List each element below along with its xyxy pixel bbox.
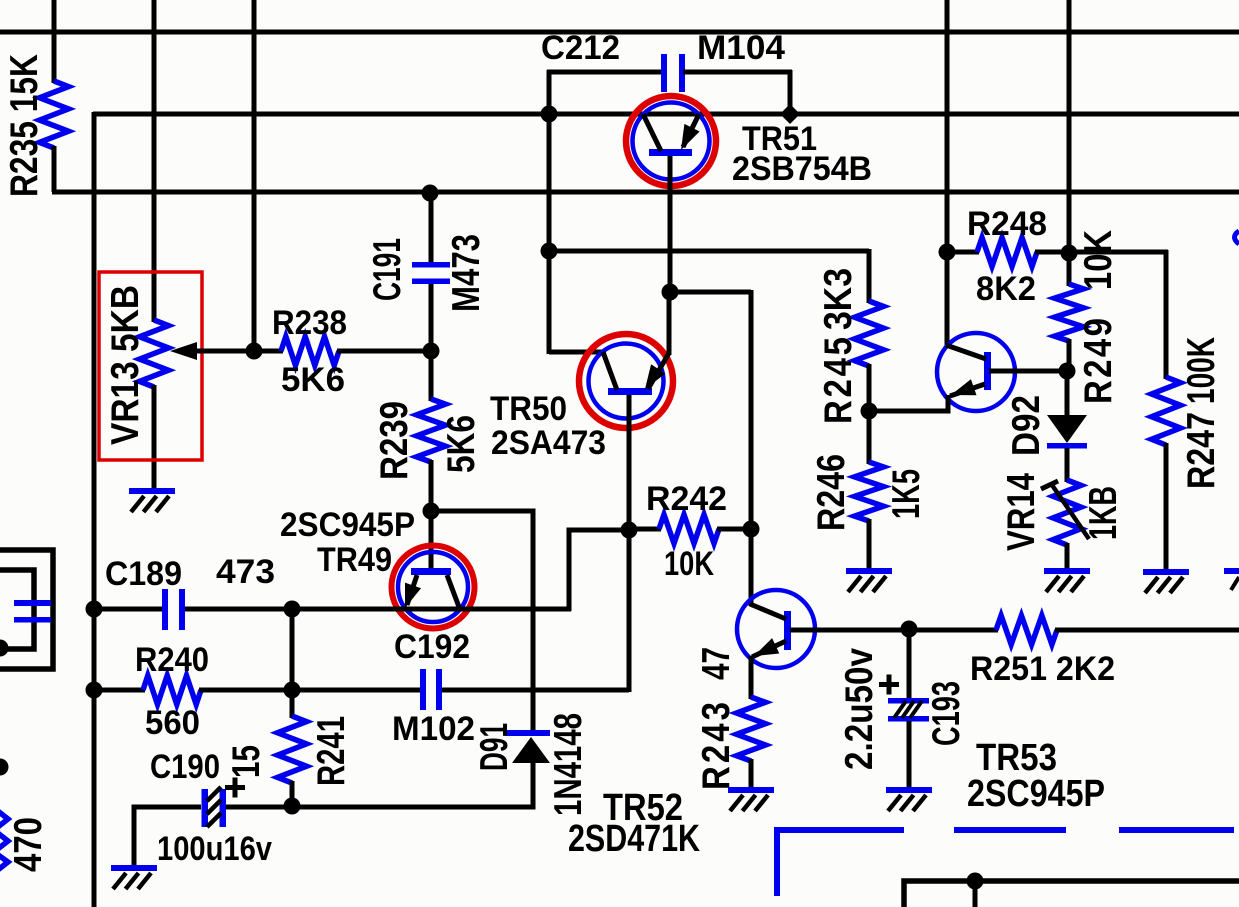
wire D91 bottom lead: [292, 761, 533, 807]
label R247: [1178, 412, 1222, 489]
label 1KB: [1080, 486, 1124, 540]
svg-text:M104: M104: [697, 29, 785, 67]
ground C190: [111, 865, 157, 889]
wire R235 top lead: [52, 0, 57, 83]
node C212 right junction: [780, 104, 800, 124]
transistor TR50 base bar: [608, 388, 652, 395]
label R240: [135, 641, 209, 679]
transistor TR49 red ring: [392, 546, 475, 629]
wire TR52 base lead: [790, 628, 911, 633]
node C212 left junction: [541, 106, 558, 123]
wire vertical x947: [945, 0, 950, 347]
svg-text:C193: C193: [923, 681, 967, 746]
label C190: [150, 748, 220, 786]
svg-text:R247: R247: [1178, 412, 1222, 489]
wire TR51 emitter diagonal: [683, 114, 699, 147]
wire x292 link: [290, 609, 295, 690]
wire C192 right lead: [442, 688, 629, 693]
wire C192 left lead: [292, 688, 422, 693]
label R251 2K2: [970, 650, 1115, 688]
arrow TR51 emitter: [681, 124, 700, 150]
label 473 C189: [216, 553, 275, 591]
capacitor C193: [888, 698, 929, 722]
label 1K5: [883, 469, 927, 519]
label R241: [308, 716, 352, 786]
wire VR13 wiper: [194, 349, 254, 354]
svg-text:D91: D91: [471, 723, 515, 771]
wire TR51 collector diagonal: [643, 114, 661, 151]
svg-text:C212: C212: [541, 29, 620, 67]
node R240 left junction: [86, 682, 103, 699]
svg-text:R240: R240: [135, 641, 209, 679]
wire R242 right lead: [717, 527, 751, 532]
svg-text:473: 473: [216, 553, 275, 591]
label R246: [808, 454, 852, 531]
ground C193: [886, 787, 932, 811]
svg-text:R239: R239: [371, 401, 415, 480]
wire C190 right lead: [224, 805, 292, 810]
wire TR50 emitter riser: [667, 292, 672, 355]
node R248 left junction: [939, 244, 956, 261]
diode D92: [1047, 415, 1087, 449]
wire TR52 collector diagonal: [750, 604, 786, 619]
wire R240 right lead: [199, 688, 294, 693]
svg-text:470: 470: [5, 817, 49, 872]
svg-text:R249: R249: [1075, 318, 1119, 404]
label 2.2u50v: [836, 648, 880, 770]
plus sign C193: [879, 675, 899, 695]
wire y609 jog up: [569, 530, 631, 611]
svg-text:R251 2K2: R251 2K2: [970, 650, 1115, 688]
wire R251 left lead: [909, 628, 998, 633]
svg-text:2SB754B: 2SB754B: [732, 150, 872, 188]
resistor R249: [1055, 284, 1084, 341]
label R243: [693, 702, 737, 790]
svg-text:2SD471K: 2SD471K: [568, 818, 700, 860]
wire bias base lead: [989, 369, 1067, 374]
resistor R240: [143, 676, 201, 705]
svg-text:1K5: 1K5: [883, 469, 927, 519]
wire C191 top lead: [429, 192, 434, 264]
node TR50 base junction: [621, 522, 638, 539]
wire bias emitter corner: [869, 395, 948, 411]
node C193 top junction: [901, 621, 918, 638]
arrow bias emitter: [951, 379, 977, 395]
transistor TR51 base bar: [649, 149, 692, 156]
svg-text:R245: R245: [815, 337, 859, 424]
diode D91: [506, 730, 550, 763]
arrow TR52 emitter: [754, 638, 779, 656]
label VR13 5KB: [102, 285, 146, 445]
wire TR49 base lead: [429, 511, 434, 570]
wire TR52 collector lead: [749, 529, 754, 606]
resistor R239: [417, 399, 446, 462]
resistor R247: [1152, 377, 1181, 445]
resistor R242: [659, 515, 719, 544]
resistor partial 470: [0, 808, 8, 873]
node x549 y251 junction: [541, 243, 558, 260]
label 2SC945P TR49: [280, 506, 415, 544]
label R248: [967, 205, 1047, 243]
wire C212 riser left: [547, 70, 552, 116]
svg-text:TR49: TR49: [317, 541, 392, 579]
label R239: [371, 401, 415, 480]
wire y292 link: [670, 290, 751, 295]
wire R245 bottom lead: [867, 364, 872, 411]
svg-text:10K: 10K: [1075, 230, 1119, 290]
label C193: [923, 681, 967, 746]
label TR50: [490, 390, 567, 428]
svg-text:1KB: 1KB: [1080, 486, 1124, 540]
capacitor C190: [202, 787, 227, 827]
transistor TR50 red ring: [579, 334, 673, 428]
label TR53: [976, 737, 1057, 779]
label 1N4148: [545, 713, 589, 816]
arrow TR49 emitter: [405, 583, 421, 608]
label 2SC945P TR53: [967, 773, 1105, 815]
node R249 top junction: [1061, 245, 1078, 262]
wire VR13 bottom lead: [152, 385, 157, 490]
transistor TR50 body: [589, 344, 664, 419]
wire C190 left lead: [134, 807, 201, 867]
wire C212 right lead: [683, 70, 792, 75]
capacitor connector plates: [14, 600, 51, 623]
label R242: [646, 480, 727, 518]
wire R247 drop: [1164, 250, 1169, 379]
wire D92 bottom lead: [1065, 448, 1070, 482]
wiper VR14 arrow: [1041, 481, 1089, 539]
wire C212 riser right: [788, 70, 793, 114]
node connector edge: [0, 640, 9, 657]
svg-text:R238: R238: [272, 304, 347, 342]
connector outer bracket: [0, 550, 53, 669]
wire vertical x1069: [1067, 0, 1072, 286]
svg-text:2SA473: 2SA473: [491, 424, 606, 462]
label C212: [541, 29, 620, 67]
resistor R241: [278, 716, 307, 783]
ground R247: [1143, 569, 1189, 593]
svg-text:TR50: TR50: [490, 390, 567, 428]
label 560: [145, 704, 200, 742]
label 5K6 R238: [281, 361, 345, 399]
svg-text:R246: R246: [808, 454, 852, 531]
wire TR49 emitter diagonal: [407, 575, 417, 605]
svg-text:C189: C189: [105, 555, 182, 593]
wire to R238: [254, 349, 283, 354]
wire y511 link: [431, 511, 533, 732]
ground partial right edge: [1224, 568, 1239, 590]
wire R248 right lead: [1035, 250, 1069, 255]
node VR13 wiper junction: [246, 343, 263, 360]
label VR14: [998, 473, 1042, 551]
capacitor C191: [412, 262, 450, 284]
wire lower bus: [52, 190, 1239, 195]
wire TR52 emitter lead: [749, 656, 754, 699]
label 47: [693, 647, 737, 680]
dashed blue wire: [777, 827, 1234, 896]
wire C191 bottom lead: [429, 284, 434, 353]
wiper arrow VR13: [170, 342, 197, 360]
svg-text:VR14: VR14: [998, 473, 1042, 551]
wire TR51 base lead: [668, 156, 673, 292]
label D91: [471, 723, 515, 771]
wire bias collector diagonal: [946, 345, 986, 359]
svg-text:47: 47: [693, 647, 737, 680]
label 8K2: [976, 270, 1036, 308]
label 3K3: [815, 268, 859, 330]
label R245: [815, 337, 859, 424]
label 10K R249: [1075, 230, 1119, 290]
svg-text:10K: 10K: [664, 545, 714, 583]
label 15 R241: [223, 745, 267, 778]
resistor R245: [855, 301, 884, 366]
ground R243: [728, 787, 774, 811]
wire y252 to corner: [1069, 250, 1168, 255]
wire TR50 collector entry: [549, 350, 606, 355]
label 5K6 R239: [438, 415, 482, 473]
wire R240 left lead: [94, 688, 145, 693]
transistor TR51 red ring: [626, 96, 716, 186]
transistor TR52 base bar: [784, 611, 791, 650]
wire bottom box stub: [973, 881, 978, 907]
transistor TR51 body: [633, 103, 710, 180]
label C189: [105, 555, 182, 593]
wire top bus: [0, 30, 1239, 35]
node C191 top junction: [422, 185, 439, 202]
wire R239 top lead: [429, 351, 434, 401]
label C191: [364, 238, 408, 301]
svg-text:15: 15: [223, 745, 267, 778]
label 2SA473: [491, 424, 606, 462]
wire R238 to C191 node: [337, 349, 431, 354]
wire C212 left lead: [547, 70, 663, 75]
label C192: [394, 628, 470, 666]
wire y609 rail: [292, 607, 571, 612]
ground R246: [846, 568, 892, 592]
label 470: [5, 817, 49, 872]
svg-text:R248: R248: [967, 205, 1047, 243]
label 100u16v: [157, 830, 272, 868]
wire TR52 emitter diagonal: [752, 641, 786, 657]
svg-text:C191: C191: [364, 238, 408, 301]
capacitor C189: [162, 589, 185, 630]
resistor R251: [996, 616, 1057, 645]
label 2SD471K: [568, 818, 700, 860]
svg-text:C190: C190: [150, 748, 220, 786]
label 100K: [1178, 337, 1222, 404]
node C191 bottom junction: [423, 343, 440, 360]
svg-text:2SC945P: 2SC945P: [967, 773, 1105, 815]
svg-text:M102: M102: [392, 710, 475, 748]
capacitor C192: [420, 669, 442, 710]
wire bias emitter diagonal: [950, 384, 985, 396]
svg-text:D92: D92: [1003, 395, 1047, 456]
svg-text:100u16v: 100u16v: [157, 830, 272, 868]
wire partial right edge arc: [1235, 231, 1239, 244]
svg-text:100K: 100K: [1178, 337, 1222, 404]
wire R245 top lead: [867, 249, 872, 303]
resistor R246: [855, 462, 884, 521]
svg-text:2SC945P: 2SC945P: [280, 506, 415, 544]
wire x751 riser: [749, 290, 754, 528]
label 10K: [664, 545, 714, 583]
svg-text:560: 560: [145, 704, 200, 742]
arrow TR50 emitter: [645, 364, 665, 389]
resistor R238: [281, 337, 339, 366]
svg-text:3K3: 3K3: [815, 268, 859, 330]
node R241 bottom junction: [284, 798, 301, 815]
wire TR50 base lead: [627, 395, 632, 692]
wire R246 top lead: [867, 411, 872, 464]
svg-text:5K6: 5K6: [438, 415, 482, 473]
wire R241 top lead: [290, 690, 295, 718]
label M102: [392, 710, 475, 748]
wire R246 bottom lead: [867, 519, 872, 570]
wire R235 bottom lead: [52, 146, 57, 192]
wire R243 bottom lead: [749, 759, 754, 789]
node R245 R246 junction: [861, 403, 878, 420]
svg-text:8K2: 8K2: [976, 270, 1036, 308]
wire y251 rail: [549, 249, 869, 254]
resistor R235: [40, 81, 69, 148]
wire mid bus: [93, 112, 1239, 117]
label TR51: [742, 120, 817, 158]
wire R239 bottom lead: [429, 460, 434, 511]
wire TR50 emitter diagonal: [648, 353, 669, 389]
transistor bias body: [937, 333, 1015, 411]
wire C189 left lead: [94, 607, 164, 612]
label R235 15K: [1, 54, 45, 197]
wire vertical x154: [152, 0, 157, 322]
wire R242 left lead: [629, 527, 661, 532]
node D92 top junction: [1059, 363, 1076, 380]
transistor bias base bar: [984, 352, 991, 390]
node bottom box junction: [967, 873, 984, 890]
wire VR14 bottom lead: [1065, 543, 1070, 570]
wire R247 bottom lead: [1164, 443, 1169, 571]
wire C193 bottom lead: [907, 721, 912, 789]
svg-text:R241: R241: [308, 716, 352, 786]
wire R249 bottom lead: [1067, 339, 1072, 371]
svg-text:C192: C192: [394, 628, 470, 666]
node y609 x292 junction: [284, 601, 301, 618]
svg-text:R235 15K: R235 15K: [1, 54, 45, 197]
svg-text:5K6: 5K6: [281, 361, 345, 399]
label TR49: [317, 541, 392, 579]
node left edge y767: [0, 759, 9, 776]
ground VR14: [1044, 568, 1090, 592]
wire C189 right lead: [185, 607, 294, 612]
box bottom right corner: [904, 881, 1239, 907]
ground VR13: [129, 488, 175, 512]
wire TR50 collector diagonal: [603, 352, 617, 390]
box VR13 red outline: [99, 272, 202, 460]
wire x549 riser: [547, 114, 552, 354]
svg-text:1N4148: 1N4148: [545, 713, 589, 816]
svg-text:R242: R242: [646, 480, 727, 518]
label TR52: [603, 787, 683, 829]
label 2SB754B: [732, 150, 872, 188]
wire C193 top lead: [907, 629, 912, 700]
wire D92 top lead: [1065, 371, 1070, 416]
node y690 x292 junction: [284, 682, 301, 699]
label D92: [1003, 395, 1047, 456]
node R239 bottom junction: [423, 503, 440, 520]
node C189 left junction: [86, 601, 103, 618]
svg-text:R243: R243: [693, 702, 737, 790]
svg-text:VR13 5KB: VR13 5KB: [102, 285, 146, 445]
transistor TR49 body: [398, 552, 468, 622]
wire R251 right lead: [1055, 628, 1239, 633]
resistor R243: [737, 697, 766, 761]
potentiometer VR14: [1053, 480, 1081, 545]
wire TR50 base corner: [627, 688, 632, 692]
wire R241 bottom lead: [290, 781, 295, 806]
node TR51 base junction: [662, 284, 679, 301]
resistor R248: [977, 238, 1037, 267]
transistor TR52 body: [737, 590, 815, 668]
node R242 right junction: [743, 521, 760, 538]
label M104: [697, 29, 785, 67]
plus sign C190: [225, 778, 245, 798]
wire vertical x94: [92, 112, 97, 907]
label M473: [443, 234, 487, 312]
potentiometer VR13: [140, 320, 169, 387]
wire TR49 collector diagonal: [447, 575, 459, 607]
wire vertical x254: [252, 0, 257, 351]
label R249: [1075, 318, 1119, 404]
transistor TR49 base bar: [411, 568, 451, 575]
label R238: [272, 304, 347, 342]
svg-text:2.2u50v: 2.2u50v: [836, 648, 880, 770]
wire R248 left lead: [947, 250, 979, 255]
connector inner bracket: [0, 570, 34, 649]
svg-text:M473: M473: [443, 234, 487, 312]
capacitor C212: [661, 54, 685, 92]
